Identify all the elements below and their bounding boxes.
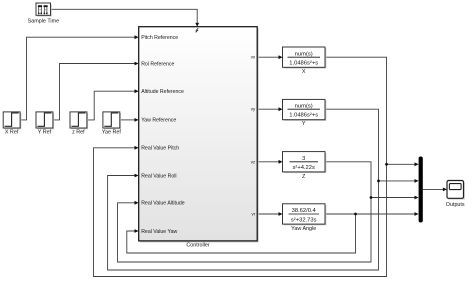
wire z Ref to Altitude Reference xyxy=(87,89,139,120)
wire Y branch to mux input 2 xyxy=(379,179,419,183)
block Sample Time xyxy=(28,3,59,24)
wire Yaw Angle output to mux input 4 xyxy=(325,212,419,216)
wire X branch to mux input 1 xyxy=(387,162,419,166)
wire Sample Time to trigger port xyxy=(51,9,200,26)
svg-text:Sample Time: Sample Time xyxy=(28,18,59,24)
svg-text:X: X xyxy=(302,69,306,75)
block Controller subsystem xyxy=(139,27,259,249)
svg-text:1.0486s²+s: 1.0486s²+s xyxy=(289,113,318,119)
svg-text:vr: vr xyxy=(252,212,256,217)
wire Y Ref to Rol Reference xyxy=(53,62,139,120)
svg-text:Real Value Altitude: Real Value Altitude xyxy=(141,201,185,207)
svg-text:s²+32.73s: s²+32.73s xyxy=(291,217,317,223)
svg-text:Outputs: Outputs xyxy=(446,202,465,208)
junction X branch xyxy=(385,163,388,166)
block Y Ref (step) xyxy=(36,112,54,135)
svg-text:Pitch Reference: Pitch Reference xyxy=(141,35,178,41)
svg-text:vz: vz xyxy=(251,159,255,164)
svg-text:38.62/0.4: 38.62/0.4 xyxy=(292,208,317,214)
svg-text:Y: Y xyxy=(302,121,306,127)
svg-text:1.0486s²+s: 1.0486s²+s xyxy=(289,61,318,67)
wire vx to transfer fn X xyxy=(257,55,282,59)
block transfer fn Z xyxy=(283,152,327,180)
block transfer fn X xyxy=(283,47,327,75)
junction Y branch xyxy=(377,180,380,183)
wire vz to transfer fn Z xyxy=(257,160,282,164)
svg-text:Yaw Reference: Yaw Reference xyxy=(141,118,176,124)
svg-text:num(s): num(s) xyxy=(295,103,313,109)
svg-text:Yae Ref: Yae Ref xyxy=(102,129,122,135)
block transfer fn Y xyxy=(283,99,327,127)
block Yae Ref (step) xyxy=(102,112,122,135)
svg-text:Controller: Controller xyxy=(186,243,210,249)
svg-text:Real Value Yaw: Real Value Yaw xyxy=(141,229,177,235)
junction Z branch xyxy=(370,196,373,199)
wire Y feedback loop to Real Value Roll xyxy=(108,109,379,270)
wire vr to transfer fn Yaw Angle xyxy=(257,212,282,216)
svg-text:num(s): num(s) xyxy=(295,51,313,57)
svg-text:3: 3 xyxy=(302,156,305,162)
svg-text:Rol Reference: Rol Reference xyxy=(141,61,174,67)
mux xyxy=(419,157,423,223)
wire Yaw feedback loop to Real Value Yaw xyxy=(127,214,356,253)
svg-text:Altitude Reference: Altitude Reference xyxy=(141,89,184,95)
wire Z feedback loop to Real Value Altitude xyxy=(118,162,372,262)
wire vy to transfer fn Y xyxy=(257,107,282,111)
wire mux to Outputs scope xyxy=(423,188,447,192)
block X Ref (step) xyxy=(3,112,21,135)
wire X Ref to Pitch Reference xyxy=(20,35,139,120)
block transfer fn Yaw Angle xyxy=(283,204,327,232)
wire Z branch to mux input 3 xyxy=(371,196,419,200)
block z Ref (step) xyxy=(70,112,88,135)
trigger symbol on Controller xyxy=(196,28,199,32)
svg-text:Real Value Roll: Real Value Roll xyxy=(141,173,176,179)
wire Yae Ref to Yaw Reference xyxy=(120,118,139,122)
junction Yaw feedback xyxy=(354,213,357,216)
svg-text:z Ref: z Ref xyxy=(72,129,85,135)
svg-text:Real Value Pitch: Real Value Pitch xyxy=(141,146,179,152)
svg-text:s²+4.22s: s²+4.22s xyxy=(292,165,314,171)
svg-text:Yaw Angle: Yaw Angle xyxy=(291,226,316,232)
block Outputs scope xyxy=(446,181,465,209)
svg-text:X Ref: X Ref xyxy=(5,129,19,135)
svg-text:Y Ref: Y Ref xyxy=(38,129,52,135)
wire X feedback loop to Real Value Pitch xyxy=(94,57,387,276)
